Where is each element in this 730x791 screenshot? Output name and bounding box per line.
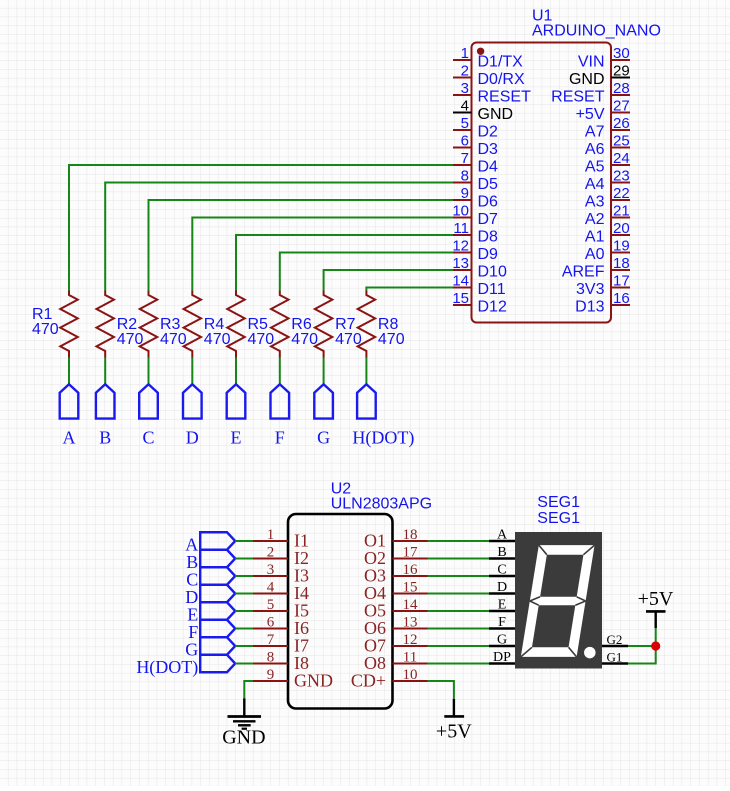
svg-text:A1: A1 <box>585 229 605 246</box>
svg-text:ARDUINO_NANO: ARDUINO_NANO <box>532 23 661 40</box>
U2 pin 9 (GND) <box>253 667 333 691</box>
svg-text:+5V: +5V <box>436 721 472 743</box>
net port F (to segment) <box>271 384 290 418</box>
net port C (input to U2) <box>200 567 235 585</box>
svg-text:4: 4 <box>461 98 469 115</box>
U2 pin 4 (I4) <box>253 580 309 604</box>
svg-text:D0/RX: D0/RX <box>478 71 525 88</box>
U2 pin 1 (I1) <box>253 527 309 551</box>
svg-text:30: 30 <box>613 45 630 62</box>
7-segment display SEG1 <box>515 532 602 669</box>
U1 pin 7 (D4) <box>453 150 498 176</box>
U1 pin 27 (+5V) <box>576 98 630 124</box>
svg-text:470: 470 <box>160 331 187 348</box>
U1 pin 10 (D7) <box>452 203 498 229</box>
svg-text:24: 24 <box>613 150 630 167</box>
svg-text:D8: D8 <box>478 229 499 246</box>
SEG1 pin C <box>489 563 515 578</box>
wire U2 O4 to SEG1 D <box>428 593 490 595</box>
SEG1 pin B <box>489 545 515 560</box>
svg-text:9: 9 <box>461 185 469 202</box>
svg-text:26: 26 <box>613 115 630 132</box>
svg-text:RESET: RESET <box>478 89 532 106</box>
wire U2 O5 to SEG1 E <box>428 610 490 612</box>
wire U1 pin 12 (D9) to R6 <box>280 253 453 291</box>
U1 pin 9 (D6) <box>453 185 498 211</box>
SEG1 pin G2 <box>602 632 628 647</box>
SEG1 digit segments <box>521 545 595 657</box>
net port D (input to U2) <box>200 585 235 603</box>
svg-text:E: E <box>231 427 242 447</box>
svg-text:D7: D7 <box>478 211 499 228</box>
svg-text:D5: D5 <box>478 176 499 193</box>
net port H(DOT) (to segment) <box>357 384 376 418</box>
U1 pin 26 (A7) <box>585 115 630 141</box>
svg-text:A4: A4 <box>585 176 605 193</box>
svg-text:2: 2 <box>267 545 275 561</box>
svg-text:D11: D11 <box>478 281 506 298</box>
svg-text:470: 470 <box>291 331 318 348</box>
U1 pin 8 (D5) <box>453 168 498 194</box>
wire net F to U2 pin 6 <box>235 628 253 630</box>
svg-text:F: F <box>275 427 285 447</box>
U2 pin 13 (O6) <box>364 615 428 639</box>
U2 pin 6 (I6) <box>253 615 309 639</box>
svg-text:ULN2803APG: ULN2803APG <box>331 495 432 512</box>
svg-text:GND: GND <box>294 671 333 691</box>
svg-text:DP: DP <box>493 650 511 665</box>
wire U2 O1 to SEG1 A <box>428 540 490 542</box>
svg-text:20: 20 <box>613 220 630 237</box>
svg-text:D: D <box>497 580 507 595</box>
U2 pin 3 (I3) <box>253 562 309 586</box>
svg-text:SEG1: SEG1 <box>537 510 580 527</box>
svg-text:1: 1 <box>461 45 469 62</box>
svg-text:11: 11 <box>403 650 417 666</box>
svg-text:28: 28 <box>613 80 630 97</box>
U1 pin 1 marker dot <box>477 48 484 55</box>
U1 pin 19 (A0) <box>585 238 630 264</box>
svg-text:C: C <box>497 563 506 578</box>
svg-text:+5V: +5V <box>576 106 605 123</box>
svg-text:9: 9 <box>267 667 275 683</box>
svg-text:15: 15 <box>452 290 469 307</box>
wire junction to +5V <box>655 628 657 646</box>
resistor R5 470 <box>227 291 245 358</box>
wire U2 O3 to SEG1 C <box>428 575 490 577</box>
resistor R7 470 <box>315 291 333 358</box>
U1 pin 4 (GND) <box>453 98 513 124</box>
svg-text:27: 27 <box>613 98 630 115</box>
U2 pin 11 (O8) <box>364 650 428 674</box>
svg-text:A3: A3 <box>585 194 605 211</box>
U2 pin 15 (O4) <box>364 580 428 604</box>
resistor R8 470 <box>358 291 376 358</box>
svg-text:7: 7 <box>267 632 275 648</box>
svg-text:GND: GND <box>569 71 605 88</box>
svg-text:H(DOT): H(DOT) <box>352 427 414 448</box>
svg-text:19: 19 <box>613 238 630 255</box>
U2 pin 18 (O1) <box>364 527 428 551</box>
SEG1 pin G1 <box>602 650 628 665</box>
net port E (input to U2) <box>200 602 235 620</box>
U2 pin 2 (I2) <box>253 545 309 569</box>
wire R4 to net flag D <box>191 358 193 385</box>
svg-text:21: 21 <box>613 203 630 220</box>
resistor R2 470 <box>96 291 114 358</box>
SEG1 pin E <box>489 598 515 613</box>
svg-text:G2: G2 <box>607 632 623 647</box>
U2 pin 8 (I8) <box>253 650 309 674</box>
net port F (input to U2) <box>200 620 235 638</box>
U2 pin 7 (I7) <box>253 632 309 656</box>
SEG1 pin D <box>489 580 515 595</box>
svg-text:H(DOT): H(DOT) <box>136 657 198 678</box>
svg-text:SEG1: SEG1 <box>537 494 580 511</box>
svg-text:D13: D13 <box>575 299 604 316</box>
wire R5 to net flag E <box>235 358 237 385</box>
junction dot <box>651 641 660 650</box>
wire SEG1 G1 to junction <box>628 646 656 664</box>
net port B (to segment) <box>96 384 115 418</box>
svg-text:A0: A0 <box>585 246 605 263</box>
svg-text:5: 5 <box>267 597 275 613</box>
svg-text:29: 29 <box>613 63 630 80</box>
wire SEG1 G2 to junction <box>628 645 656 647</box>
svg-text:10: 10 <box>403 667 418 683</box>
U2 pin 5 (I5) <box>253 597 309 621</box>
svg-text:14: 14 <box>452 273 469 290</box>
svg-text:470: 470 <box>248 331 275 348</box>
svg-text:23: 23 <box>613 168 630 185</box>
svg-text:VIN: VIN <box>578 54 605 71</box>
svg-text:GND: GND <box>222 727 265 749</box>
svg-text:G: G <box>317 427 330 447</box>
svg-text:D9: D9 <box>478 246 499 263</box>
wire U2 O6 to SEG1 F <box>428 628 490 630</box>
wire U2 O2 to SEG1 B <box>428 558 490 560</box>
U1 pin 11 (D8) <box>453 220 498 246</box>
svg-text:4: 4 <box>267 580 275 596</box>
svg-text:D4: D4 <box>478 159 499 176</box>
svg-text:A6: A6 <box>585 141 605 158</box>
wire U1 pin 11 (D8) to R5 <box>236 235 453 291</box>
resistor R1 470 <box>60 291 78 358</box>
svg-text:D12: D12 <box>478 299 507 316</box>
svg-text:6: 6 <box>267 615 275 631</box>
svg-text:10: 10 <box>452 203 469 220</box>
wire U1 pin 7 (D4) to R1 <box>69 165 453 291</box>
wire net B to U2 pin 2 <box>235 558 253 560</box>
svg-text:3: 3 <box>267 562 275 578</box>
svg-text:RESET: RESET <box>551 89 605 106</box>
svg-text:D: D <box>186 427 199 447</box>
U1 pin 14 (D11) <box>452 273 505 299</box>
U1 pin 5 (D2) <box>453 115 498 141</box>
U1 pin 6 (D3) <box>453 133 498 159</box>
net port A (input to U2) <box>200 532 235 550</box>
wire U1 pin 9 (D6) to R3 <box>149 200 454 291</box>
power symbol +5V (bottom) <box>436 699 472 743</box>
wire R7 to net flag G <box>323 358 325 385</box>
U1 pin 3 (RESET) <box>453 80 531 106</box>
svg-text:C: C <box>142 427 154 447</box>
svg-text:B: B <box>99 427 111 447</box>
svg-text:470: 470 <box>378 331 405 348</box>
U1 pin 25 (A6) <box>585 133 630 159</box>
net port H(DOT) (input to U2) <box>200 655 235 673</box>
svg-text:16: 16 <box>403 562 419 578</box>
svg-text:E: E <box>498 598 507 613</box>
svg-text:2: 2 <box>461 63 469 80</box>
U1 pin 22 (A3) <box>585 185 630 211</box>
wire U1 pin 13 (D10) to R7 <box>324 270 453 291</box>
wire U2 GND pin to ground <box>244 681 253 698</box>
wire R8 to net flag H(DOT) <box>365 358 367 385</box>
U1 pin 12 (D9) <box>452 238 498 264</box>
SEG1 decimal point <box>584 647 596 659</box>
resistor R3 470 <box>140 291 158 358</box>
svg-text:12: 12 <box>452 238 469 255</box>
SEG1 pin DP <box>489 650 515 665</box>
U1 pin 15 (D12) <box>452 290 507 316</box>
U1 pin 2 (D0/RX) <box>453 63 525 89</box>
net port C (to segment) <box>139 384 158 418</box>
wire U2 O7 to SEG1 G <box>428 645 490 647</box>
U1 pin 29 (GND) <box>569 63 630 89</box>
U2 pin 10 (CD+) <box>351 667 428 691</box>
wire net G to U2 pin 7 <box>235 645 253 647</box>
U1 pin 13 (D10) <box>452 255 507 281</box>
svg-text:3: 3 <box>461 80 469 97</box>
U1 pin 23 (A4) <box>585 168 630 194</box>
wire net E to U2 pin 5 <box>235 610 253 612</box>
net port D (to segment) <box>183 384 202 418</box>
U2 pin 17 (O2) <box>364 545 428 569</box>
svg-text:D2: D2 <box>478 124 499 141</box>
svg-text:6: 6 <box>461 133 469 150</box>
wire net C to U2 pin 3 <box>235 575 253 577</box>
net port G (input to U2) <box>200 637 235 655</box>
svg-text:D3: D3 <box>478 141 499 158</box>
wire U2 CD+ pin to +5V <box>428 681 454 699</box>
U1 pin 24 (A5) <box>585 150 630 176</box>
U2 pin 16 (O3) <box>364 562 428 586</box>
net port B (input to U2) <box>200 550 235 568</box>
svg-text:18: 18 <box>403 527 418 543</box>
svg-text:11: 11 <box>453 220 469 237</box>
wire R2 to net flag B <box>104 358 106 385</box>
svg-text:B: B <box>497 545 506 560</box>
svg-text:A: A <box>497 528 508 543</box>
wire net D to U2 pin 4 <box>235 593 253 595</box>
svg-text:13: 13 <box>452 255 469 272</box>
wire U2 O8 to SEG1 DP <box>428 663 490 665</box>
svg-text:25: 25 <box>613 133 630 150</box>
svg-text:7: 7 <box>461 150 469 167</box>
net port E (to segment) <box>227 384 246 418</box>
U2 pin 14 (O5) <box>364 597 428 621</box>
svg-text:470: 470 <box>204 331 231 348</box>
U2 pin 12 (O7) <box>364 632 428 656</box>
svg-text:A7: A7 <box>585 124 605 141</box>
svg-text:1: 1 <box>267 527 275 543</box>
net port A (to segment) <box>60 384 79 418</box>
U1 pin 21 (A2) <box>585 203 630 229</box>
wire U1 pin 10 (D7) to R4 <box>192 218 453 291</box>
svg-text:12: 12 <box>403 632 418 648</box>
svg-text:22: 22 <box>613 185 630 202</box>
svg-text:D6: D6 <box>478 194 499 211</box>
wire R1 to net flag A <box>68 358 70 385</box>
svg-text:8: 8 <box>461 168 469 185</box>
wire R3 to net flag C <box>148 358 150 385</box>
svg-text:G: G <box>497 633 507 648</box>
SEG1 pin F <box>489 615 515 630</box>
wire U1 pin 8 (D5) to R2 <box>105 183 453 291</box>
svg-text:3V3: 3V3 <box>576 281 605 298</box>
U1 pin 28 (RESET) <box>551 80 630 106</box>
svg-text:AREF: AREF <box>562 264 605 281</box>
svg-text:A: A <box>63 427 76 447</box>
IC U2 ULN2803APG <box>288 514 393 709</box>
svg-text:F: F <box>498 615 506 630</box>
U1 pin 1 (D1/TX) <box>453 45 523 71</box>
svg-text:A5: A5 <box>585 159 605 176</box>
svg-text:D10: D10 <box>478 264 507 281</box>
power symbol +5V (right) <box>638 588 674 628</box>
svg-text:17: 17 <box>403 545 419 561</box>
svg-text:G1: G1 <box>607 650 623 665</box>
SEG1 pin A <box>489 528 515 543</box>
svg-text:18: 18 <box>613 255 630 272</box>
SEG1 pin G <box>489 633 515 648</box>
svg-text:15: 15 <box>403 580 418 596</box>
svg-text:+5V: +5V <box>638 588 674 610</box>
IC U1 ARDUINO_NANO <box>472 43 612 323</box>
ground symbol GND <box>222 698 265 748</box>
U1 pin 18 (AREF) <box>562 255 630 281</box>
svg-text:A2: A2 <box>585 211 605 228</box>
wire R6 to net flag F <box>279 358 281 385</box>
U1 pin 20 (A1) <box>585 220 630 246</box>
wire net H(DOT) to U2 pin 8 <box>235 663 253 665</box>
svg-text:5: 5 <box>461 115 469 132</box>
svg-text:8: 8 <box>267 650 275 666</box>
svg-text:17: 17 <box>613 273 630 290</box>
wire net A to U2 pin 1 <box>235 540 253 542</box>
svg-text:470: 470 <box>32 321 59 338</box>
svg-text:D1/TX: D1/TX <box>478 54 524 71</box>
svg-text:16: 16 <box>613 290 630 307</box>
wire U1 pin 14 (D11) to R8 <box>366 288 453 291</box>
U1 pin 30 (VIN) <box>578 45 630 71</box>
resistor R4 470 <box>184 291 202 358</box>
net port G (to segment) <box>314 384 333 418</box>
U1 pin 16 (D13) <box>575 290 630 316</box>
U1 pin 17 (3V3) <box>576 273 630 299</box>
svg-text:13: 13 <box>403 615 418 631</box>
svg-text:GND: GND <box>478 106 514 123</box>
svg-text:14: 14 <box>403 597 419 613</box>
svg-text:CD+: CD+ <box>351 671 386 691</box>
resistor R6 470 <box>271 291 289 358</box>
